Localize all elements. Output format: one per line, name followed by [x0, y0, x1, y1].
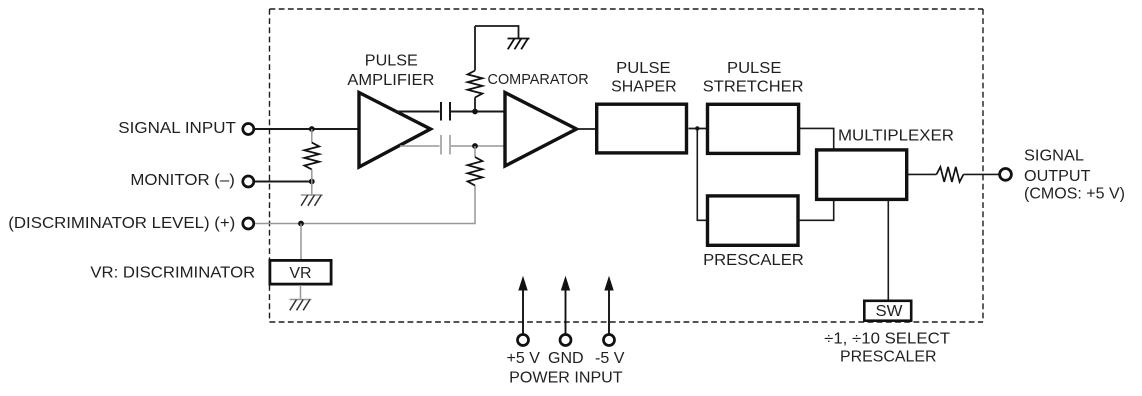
wire comparator output: [577, 128, 597, 130]
resistor R4 (output series): [937, 167, 964, 182]
wire multiplexer to SW: [887, 199, 889, 300]
wire resistor to output terminal: [964, 173, 999, 175]
wire multiplexer to output resistor: [907, 173, 937, 175]
node N3: [695, 126, 699, 130]
svg-text:POWER INPUT: POWER INPUT: [509, 370, 623, 387]
svg-text:VR: VR: [289, 265, 311, 282]
svg-text:PRESCALER: PRESCALER: [703, 252, 804, 269]
node N2: [472, 143, 478, 149]
resistor R2 (comparator bias): [468, 26, 483, 112]
wire signal input to amplifier: [255, 128, 360, 130]
svg-text:(DISCRIMINATOR LEVEL) (+): (DISCRIMINATOR LEVEL) (+): [8, 215, 235, 232]
svg-text:VR: DISCRIMINATOR: VR: DISCRIMINATOR: [90, 264, 255, 281]
svg-text:+5 V: +5 V: [507, 350, 541, 367]
wire C1 to comparator: [451, 111, 506, 113]
svg-text:AMPLIFIER: AMPLIFIER: [347, 72, 434, 89]
node on monitor line: [309, 179, 315, 185]
resistor R1 (input termination): [304, 129, 319, 182]
label POWER INPUT: [509, 370, 623, 387]
node N1: [472, 109, 478, 115]
wire monitor to node: [255, 181, 312, 183]
wire node to VR box (gray): [300, 224, 302, 261]
op-amp U1 pulse amplifier: [347, 52, 434, 167]
power terminal +5V: [507, 276, 541, 367]
resistor R3 (discriminator level): [468, 146, 483, 186]
svg-text:PULSE: PULSE: [727, 60, 781, 77]
ground below VR box: [290, 285, 312, 310]
svg-text:(CMOS: +5 V): (CMOS: +5 V): [1024, 185, 1125, 202]
svg-text:COMPARATOR: COMPARATOR: [488, 72, 589, 88]
VR box: [270, 260, 331, 284]
svg-text:STRETCHER: STRETCHER: [703, 78, 804, 95]
label VR: DISCRIMINATOR: [90, 264, 255, 281]
ground below monitor node: [301, 182, 323, 206]
terminal (DISCRIMINATOR LEVEL) (+): [8, 215, 254, 232]
capacitor C1 (top coupling): [441, 102, 450, 121]
power terminal -5V: [595, 276, 625, 367]
switch SW box: [864, 301, 911, 321]
block PULSE SHAPER: [597, 60, 687, 153]
svg-text:PULSE: PULSE: [616, 60, 670, 77]
svg-text:SW: SW: [876, 303, 904, 320]
capacitor C2 (bottom coupling, gray): [441, 135, 450, 155]
dashed module boundary box: [270, 9, 984, 322]
svg-text:÷1, ÷10 SELECT: ÷1, ÷10 SELECT: [824, 331, 950, 348]
svg-text:MULTIPLEXER: MULTIPLEXER: [838, 127, 954, 144]
ground at comparator bias: [508, 39, 530, 50]
block PULSE STRETCHER: [703, 60, 804, 153]
wire C2 to comparator (gray): [451, 145, 506, 147]
wire amplifier bottom output (gray): [400, 145, 440, 147]
svg-text:SIGNAL INPUT: SIGNAL INPUT: [118, 120, 236, 137]
svg-text:OUTPUT: OUTPUT: [1024, 168, 1091, 185]
node on signal input line: [309, 126, 315, 132]
block PRESCALER: [703, 196, 804, 269]
svg-text:-5 V: -5 V: [595, 350, 625, 367]
wire amplifier top output: [394, 111, 440, 113]
wire shaper to stretcher: [689, 128, 707, 130]
terminal SIGNAL INPUT: [118, 120, 254, 137]
terminal MONITOR (-): [130, 172, 253, 189]
wire discriminator level (gray): [255, 186, 475, 224]
terminal SIGNAL OUTPUT: [1000, 148, 1125, 203]
wire stretcher to multiplexer: [799, 128, 834, 150]
svg-text:GND: GND: [548, 350, 584, 367]
svg-text:SHAPER: SHAPER: [611, 78, 677, 95]
svg-text:SIGNAL: SIGNAL: [1024, 148, 1084, 165]
comparator U2: [488, 72, 589, 166]
power terminal GND: [548, 276, 584, 367]
wire R2 top to ground: [475, 26, 519, 39]
block MULTIPLEXER: [817, 127, 954, 199]
svg-text:PRESCALER: PRESCALER: [840, 349, 937, 366]
svg-text:PULSE: PULSE: [365, 52, 418, 69]
wire node to prescaler: [697, 129, 707, 221]
wire prescaler to multiplexer: [799, 199, 834, 220]
svg-text:MONITOR (–): MONITOR (–): [130, 172, 235, 189]
node on discriminator line: [298, 221, 304, 227]
label prescaler select: [824, 331, 950, 366]
